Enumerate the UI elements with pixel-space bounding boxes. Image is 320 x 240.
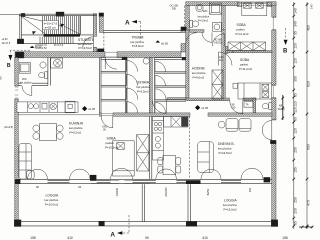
svg-text:120: 120 (294, 128, 298, 134)
svg-text:P=8,9m2: P=8,9m2 (132, 44, 144, 48)
svg-text:60÷30: 60÷30 (278, 108, 285, 111)
svg-text:P=15,0m2: P=15,0m2 (224, 207, 238, 211)
svg-text:(10+0,5): (10+0,5) (4, 126, 13, 129)
svg-text:250: 250 (294, 147, 298, 153)
svg-text:KUHINJA: KUHINJA (69, 122, 84, 126)
svg-text:NO 080: NO 080 (214, 40, 223, 42)
svg-text:OSTAVA: OSTAVA (137, 81, 150, 85)
svg-text:140: 140 (310, 4, 314, 9)
svg-text:ker.pločice: ker.pločice (20, 82, 32, 85)
svg-text:120: 120 (294, 43, 298, 49)
svg-text:WC: WC (203, 9, 208, 13)
svg-text:A: A (110, 232, 115, 239)
svg-text:ker.pločice: ker.pločice (192, 71, 206, 75)
svg-text:ker.pločice: ker.pločice (69, 126, 83, 130)
svg-text:140: 140 (294, 8, 298, 14)
svg-text:95: 95 (294, 31, 298, 35)
svg-text:230: 230 (294, 208, 298, 214)
svg-text:ker.pločice: ker.pločice (137, 85, 151, 89)
svg-text:120: 120 (294, 58, 298, 64)
svg-text:P=3,5m2: P=3,5m2 (198, 19, 209, 22)
svg-text:155: 155 (282, 236, 288, 240)
svg-text:LOGGIA: LOGGIA (46, 194, 59, 198)
svg-text:155: 155 (30, 236, 36, 240)
svg-text:14×17,5: 14×17,5 (2, 42, 11, 45)
svg-text:WC: WC (22, 77, 27, 81)
svg-text:65: 65 (294, 221, 298, 225)
svg-text:Š=28=2,52: Š=28=2,52 (35, 47, 47, 50)
svg-text:390: 390 (294, 76, 298, 82)
svg-text:A: A (125, 20, 130, 27)
svg-text:250: 250 (294, 197, 298, 203)
svg-text:LOGGIA: LOGGIA (224, 199, 237, 203)
svg-text:parket: parket (240, 62, 248, 66)
svg-text:ker.pločice: ker.pločice (198, 16, 210, 19)
svg-text:P=9,2m2: P=9,2m2 (70, 130, 82, 134)
svg-text:250: 250 (248, 187, 252, 192)
svg-text:SOBA: SOBA (237, 23, 247, 27)
svg-text:parket: parket (237, 27, 245, 31)
svg-text:SOBA: SOBA (107, 137, 117, 141)
svg-text:+0,05: +0,05 (201, 106, 209, 110)
svg-text:ker.pločica: ker.pločica (45, 198, 59, 202)
svg-text:SOBA: SOBA (240, 58, 250, 62)
svg-text:parket: parket (106, 141, 114, 145)
svg-text:P=11,2m2: P=11,2m2 (239, 67, 252, 71)
svg-text:ker.pločice: ker.pločice (218, 146, 232, 150)
svg-text:P=24,5m2: P=24,5m2 (219, 151, 233, 155)
svg-text:+0,05: +0,05 (88, 107, 96, 111)
svg-text:ker.pločica: ker.pločica (223, 203, 237, 207)
svg-text:155: 155 (294, 167, 298, 173)
svg-text:470: 470 (307, 200, 311, 206)
svg-text:8×=17,6: 8×=17,6 (54, 44, 64, 47)
svg-text:460: 460 (307, 25, 311, 31)
svg-text:±0,00: ±0,00 (161, 41, 168, 45)
svg-text:P=10,0m2: P=10,0m2 (45, 202, 59, 206)
svg-text:410: 410 (202, 236, 208, 240)
svg-text:140/210: 140/210 (214, 42, 223, 44)
svg-text:140/: 140/ (219, 57, 224, 59)
svg-text:65: 65 (294, 93, 298, 97)
svg-text:P=11,3m2: P=11,3m2 (236, 32, 249, 36)
svg-text:DNEVNI B.: DNEVNI B. (218, 142, 235, 146)
svg-text:HODNIK: HODNIK (192, 67, 206, 71)
svg-text:340: 340 (294, 21, 298, 27)
svg-text:B: B (283, 49, 288, 55)
svg-text:a=28 cm: a=28 cm (45, 26, 57, 30)
svg-text:650: 650 (307, 144, 311, 150)
svg-text:54/245: 54/245 (115, 187, 119, 195)
svg-text:+2,62: +2,62 (2, 38, 9, 41)
svg-text:DB: DB (172, 7, 176, 11)
svg-text:90: 90 (145, 236, 149, 240)
svg-text:60: 60 (294, 117, 298, 121)
svg-text:B: B (7, 63, 11, 69)
svg-text:90: 90 (0, 76, 3, 80)
svg-text:82/52: 82/52 (206, 188, 210, 195)
svg-text:P=2,5m2: P=2,5m2 (137, 89, 149, 93)
svg-text:620: 620 (307, 81, 311, 87)
svg-text:P=12,5m2: P=12,5m2 (79, 46, 93, 50)
svg-text:120: 120 (294, 107, 298, 113)
svg-text:240/220: 240/220 (164, 187, 168, 197)
svg-text:P=10,5m2: P=10,5m2 (105, 145, 119, 149)
svg-text:TA: TA (246, 104, 249, 107)
svg-text:410: 410 (67, 236, 73, 240)
svg-text:90/: 90/ (232, 105, 236, 107)
svg-text:P=9,0m2: P=9,0m2 (193, 76, 205, 80)
svg-text:110: 110 (294, 101, 298, 106)
